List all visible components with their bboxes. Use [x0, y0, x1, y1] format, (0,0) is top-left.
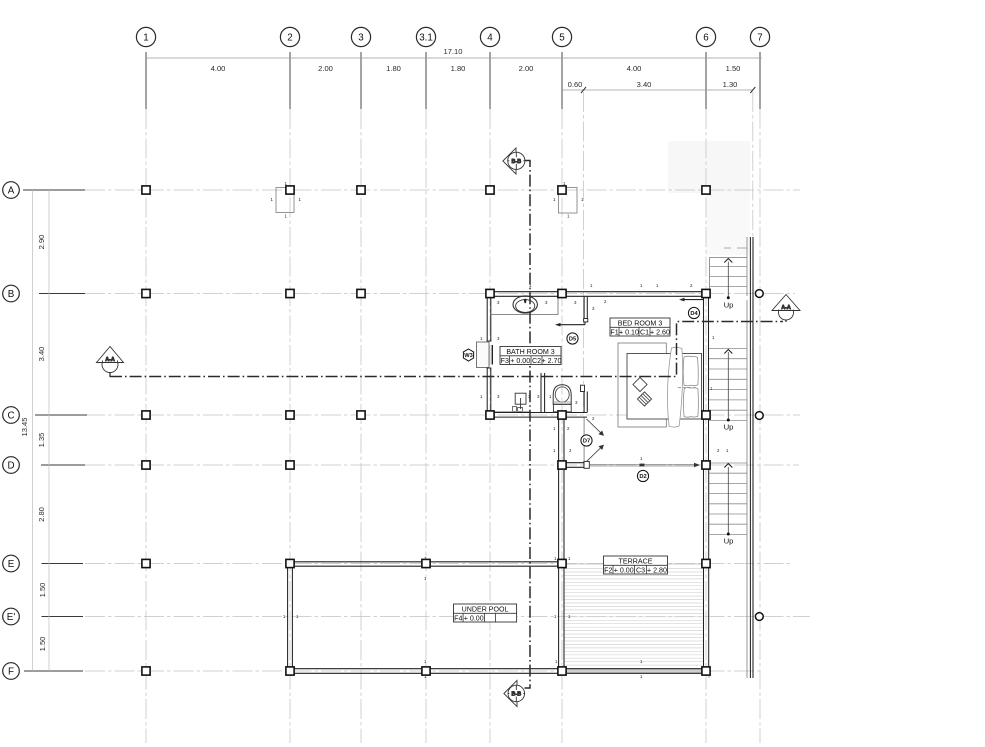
- wash basin: [513, 393, 527, 411]
- svg-text:Up: Up: [724, 301, 734, 310]
- svg-text:F1: F1: [610, 329, 618, 337]
- svg-text:2.00: 2.00: [318, 64, 333, 73]
- svg-text:1.80: 1.80: [386, 64, 401, 73]
- wall column 5 line (row C to row F): [559, 418, 564, 670]
- wall terrace east column 6 (row D to row F): [704, 468, 709, 670]
- bathtub: [513, 296, 537, 313]
- svg-text:A-A: A-A: [105, 357, 115, 363]
- svg-text:0.60: 0.60: [568, 80, 583, 89]
- horizontal grid centre-lines rows A..F: [85, 190, 810, 671]
- svg-text:A: A: [8, 185, 15, 196]
- wall bathroom east (x=585) above door D5: [584, 297, 588, 322]
- column grid squares: [142, 186, 710, 675]
- svg-text:D4: D4: [690, 311, 698, 317]
- svg-text:UNDER POOL: UNDER POOL: [462, 605, 509, 613]
- svg-text:3.40: 3.40: [637, 80, 652, 89]
- column detail rect at A/5: [559, 188, 578, 214]
- svg-text:1.30: 1.30: [723, 80, 738, 89]
- secondary top dimension line 0.60/3.40/1.30: [562, 89, 753, 91]
- pillow 2: [683, 388, 698, 418]
- terrace top edge line: [564, 563, 703, 565]
- stair outer wall (east): [750, 237, 753, 678]
- svg-text:4: 4: [487, 32, 493, 43]
- left dimension labels (rotated): [20, 235, 47, 652]
- svg-text:B: B: [8, 289, 15, 300]
- svg-text:B-B: B-B: [512, 159, 522, 165]
- door D7 opening edge line: [584, 418, 586, 462]
- column detail rect at A/2: [276, 188, 294, 213]
- svg-text:17.10: 17.10: [443, 47, 462, 56]
- solid left segments of row grid lines: [23, 190, 87, 671]
- svg-text:F2: F2: [604, 567, 612, 575]
- cushion diamond 1: [633, 377, 647, 391]
- door tag D2: [637, 470, 648, 481]
- door tag D5: [567, 333, 578, 344]
- window tag W3 (hexagon): [463, 349, 473, 361]
- svg-text:TERRACE: TERRACE: [619, 557, 653, 565]
- wall bathroom west (column 4) with window gap: [487, 292, 491, 418]
- section marker B-B bottom: [504, 680, 525, 706]
- svg-text:+ 2.60: + 2.60: [650, 329, 670, 337]
- pillow 1: [683, 356, 698, 386]
- svg-text:W3: W3: [464, 353, 473, 359]
- svg-text:+ 0.00: + 0.00: [464, 615, 484, 623]
- room label TERRACE: [604, 556, 668, 575]
- svg-text:4.00: 4.00: [211, 64, 226, 73]
- section line B-B: [525, 161, 531, 689]
- svg-text:+ 2.70: + 2.70: [542, 357, 562, 365]
- door D7 swing lines: [587, 419, 604, 462]
- svg-text:3: 3: [358, 32, 364, 43]
- room label BED ROOM 3: [610, 318, 670, 337]
- svg-text:BED ROOM 3: BED ROOM 3: [618, 319, 663, 327]
- cushion diamond 2 (striped): [637, 392, 651, 406]
- section marker A-A left: [97, 347, 124, 378]
- column bubbles 1-7: [136, 27, 769, 46]
- wall row F (south wall, with grey fill under terrace): [564, 669, 709, 674]
- stair flight 1 (top): [710, 237, 748, 310]
- tiny wall reference digits: [271, 181, 730, 679]
- under pool north wall row E: [288, 562, 564, 566]
- svg-text:E': E': [7, 612, 16, 623]
- wall row D with door jamb: [562, 461, 589, 468]
- svg-text:2: 2: [287, 32, 292, 43]
- window W3 in west wall: [477, 341, 493, 368]
- svg-text:C1: C1: [640, 329, 649, 337]
- svg-text:B-B: B-B: [512, 692, 522, 698]
- bath bench line along south wall: [492, 410, 530, 412]
- svg-text:C3: C3: [636, 567, 645, 575]
- svg-text:D: D: [7, 460, 14, 471]
- svg-text:13.45: 13.45: [20, 417, 29, 436]
- room label UNDER POOL: [454, 604, 517, 623]
- svg-text:BATH ROOM 3: BATH ROOM 3: [506, 348, 554, 356]
- door tag D4: [688, 307, 699, 318]
- pillow fold dashed line: [678, 387, 697, 389]
- bathtub platform: [492, 297, 559, 315]
- svg-text:2.00: 2.00: [519, 64, 534, 73]
- svg-text:+ 0.10: + 0.10: [619, 329, 639, 337]
- wall bedroom east column 6 (row B to row D): [704, 292, 709, 468]
- under pool west wall column 2: [288, 562, 293, 674]
- wall row B (bath+bedroom north wall): [487, 292, 710, 297]
- svg-text:C: C: [7, 410, 14, 421]
- overall top dimension line 17.10: [146, 57, 762, 59]
- svg-text:Up: Up: [724, 423, 734, 432]
- svg-text:E: E: [8, 559, 15, 570]
- svg-text:1.35: 1.35: [37, 433, 46, 448]
- folded duvet along bed: [667, 347, 682, 427]
- svg-text:3.1: 3.1: [419, 32, 433, 43]
- section marker A-A right: [772, 295, 800, 323]
- terrace decking hatch: [565, 569, 703, 666]
- svg-text:7: 7: [757, 32, 762, 43]
- svg-text:+ 0.00: + 0.00: [510, 357, 530, 365]
- svg-text:C2: C2: [532, 357, 541, 365]
- svg-text:Up: Up: [724, 537, 734, 546]
- sliding door D2 leaf: [590, 463, 700, 467]
- wall row C (bath south wall): [487, 413, 588, 418]
- toilet: [553, 385, 571, 412]
- left vertical dimension lines: [32, 190, 34, 671]
- svg-text:F: F: [8, 666, 14, 677]
- svg-text:D2: D2: [639, 474, 646, 480]
- svg-text:4.00: 4.00: [627, 64, 642, 73]
- svg-text:D7: D7: [583, 439, 590, 445]
- svg-text:1.50: 1.50: [38, 637, 47, 652]
- svg-text:F3: F3: [501, 357, 509, 365]
- door D5 slide arrow: [555, 322, 585, 327]
- svg-text:5: 5: [559, 32, 565, 43]
- svg-text:F4: F4: [454, 615, 462, 623]
- svg-text:2.80: 2.80: [37, 507, 46, 522]
- svg-text:3.40: 3.40: [37, 347, 46, 362]
- stair flight 2 (middle): [709, 300, 747, 460]
- small grid circles on line 7: [755, 290, 763, 621]
- solid top segments of column grid lines: [146, 52, 760, 109]
- stair flight 3 (bottom): [709, 460, 747, 678]
- svg-text:1.50: 1.50: [726, 64, 741, 73]
- svg-text:D5: D5: [569, 337, 576, 343]
- room label BATH ROOM 3: [500, 347, 562, 366]
- svg-text:A-A: A-A: [781, 305, 791, 311]
- top dimension labels between columns: [211, 64, 741, 73]
- svg-text:1.80: 1.80: [451, 64, 466, 73]
- wall bathroom east (x=585) below door D5 with jamb: [581, 385, 588, 412]
- vertical grid centre-lines columns 1..7: [146, 92, 760, 743]
- svg-text:6: 6: [703, 32, 709, 43]
- svg-text:1.50: 1.50: [38, 583, 47, 598]
- svg-text:+ 0.00: + 0.00: [614, 567, 634, 575]
- door tag D7: [581, 435, 592, 446]
- toilet partition wall: [541, 373, 545, 413]
- svg-text:+ 2.80: + 2.80: [647, 567, 667, 575]
- faint upper-storey wash top right: [668, 141, 750, 193]
- bedroom rug: [618, 343, 666, 427]
- door D4 slide arrow: [679, 298, 703, 302]
- svg-text:1: 1: [143, 32, 148, 43]
- section marker B-B top: [503, 148, 525, 174]
- headboard line: [701, 354, 703, 420]
- section line A-A: [110, 322, 783, 377]
- row bubbles A-F: [3, 182, 20, 680]
- svg-text:2.90: 2.90: [37, 235, 46, 250]
- bed mattress: [627, 354, 702, 420]
